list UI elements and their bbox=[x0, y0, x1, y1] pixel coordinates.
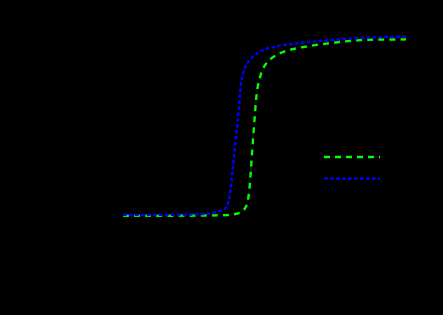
legend sample blue bbox=[324, 177, 380, 179]
curve blue (series 2, dashed) bbox=[123, 37, 406, 215]
curve green (series 1, dashed) bbox=[120, 39, 406, 215]
legend sample green bbox=[324, 156, 380, 158]
